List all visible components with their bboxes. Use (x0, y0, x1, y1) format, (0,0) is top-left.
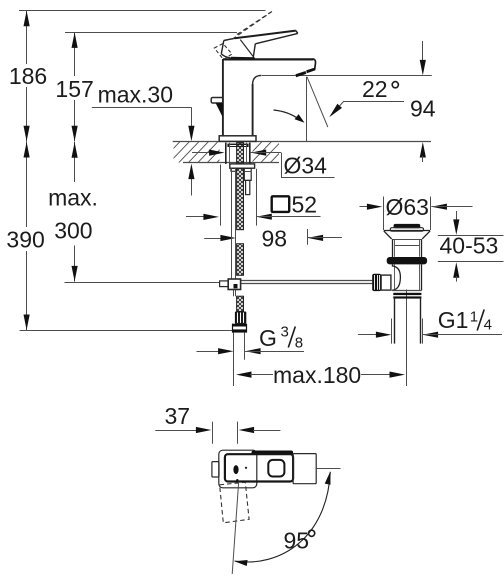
svg-text:3: 3 (281, 324, 289, 341)
svg-text:G1: G1 (438, 307, 469, 333)
svg-text:Ø34: Ø34 (284, 153, 328, 179)
svg-text:max.30: max.30 (98, 82, 173, 108)
svg-text:52: 52 (292, 192, 318, 218)
svg-text:8: 8 (295, 334, 303, 351)
svg-text:1: 1 (470, 309, 478, 326)
svg-text:98: 98 (262, 225, 288, 251)
svg-text:186: 186 (9, 63, 47, 89)
svg-text:22: 22 (362, 76, 388, 102)
svg-text:4: 4 (484, 317, 492, 334)
svg-text:G: G (259, 325, 277, 351)
svg-text:300: 300 (54, 217, 92, 243)
svg-text:157: 157 (55, 76, 93, 102)
svg-text:95: 95 (284, 528, 310, 554)
svg-text:390: 390 (6, 227, 44, 253)
svg-text:max.180: max.180 (273, 362, 361, 388)
svg-text:40-53: 40-53 (440, 233, 499, 259)
svg-text:Ø63: Ø63 (386, 194, 429, 220)
svg-text:94: 94 (410, 96, 436, 122)
svg-text:37: 37 (165, 403, 191, 429)
svg-text:max.: max. (48, 185, 98, 211)
